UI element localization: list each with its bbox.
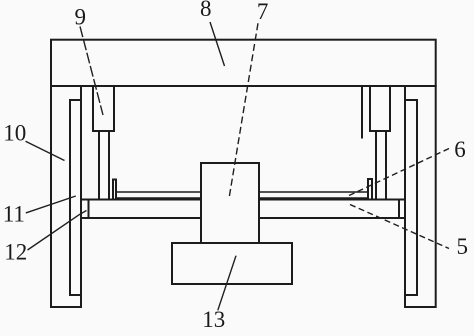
right bearing block <box>368 179 372 199</box>
svg-text:12: 12 <box>4 239 27 264</box>
right support leg <box>405 86 436 307</box>
leader line 7 (dashed) <box>229 23 258 197</box>
leader line 9 (dashed) <box>80 26 103 115</box>
screw rod 6 bottom line <box>116 197 368 199</box>
svg-text:6: 6 <box>454 137 466 162</box>
svg-text:13: 13 <box>202 307 225 332</box>
leader line 8 <box>210 22 225 66</box>
top beam 8 <box>51 40 436 86</box>
leader line 10 <box>26 141 65 160</box>
leader line 13 <box>218 256 236 311</box>
leader line 12 <box>28 211 87 251</box>
slider block 7 <box>201 163 259 243</box>
right piston rod <box>376 131 386 199</box>
leader line 11 <box>26 196 76 213</box>
left support leg 10 <box>51 86 81 307</box>
slide bar right end cap <box>398 200 400 219</box>
svg-text:9: 9 <box>74 5 86 30</box>
short hanger line (right side) <box>361 86 363 139</box>
screw rod 6 top line <box>116 191 368 193</box>
leader line 5 (dashed) <box>350 205 449 249</box>
svg-text:10: 10 <box>3 121 26 146</box>
base block 13 <box>172 243 292 284</box>
left leg inner groove <box>70 100 81 295</box>
slide bar 5 bottom line <box>81 217 406 219</box>
leader line 6 (dashed) <box>347 149 449 197</box>
cylinder 9 (left) <box>93 86 114 131</box>
svg-text:7: 7 <box>257 0 269 24</box>
slide bar 5 top line <box>81 199 406 201</box>
right leg inner groove <box>405 100 417 295</box>
slide bar left end cap 12 <box>88 200 90 219</box>
left bearing block <box>113 180 116 200</box>
svg-text:8: 8 <box>200 0 212 21</box>
left piston rod <box>99 131 109 199</box>
svg-text:11: 11 <box>3 202 25 227</box>
svg-text:5: 5 <box>456 234 468 259</box>
cylinder (right, mirror of 9) <box>370 86 390 131</box>
